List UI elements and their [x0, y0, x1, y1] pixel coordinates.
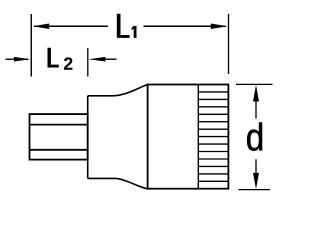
neck cylinder with bell transition — [88, 85, 148, 189]
d dimension down arrow — [253, 159, 259, 189]
dimension L1 right arrow — [144, 24, 228, 29]
d dimension top tick — [236, 83, 273, 85]
dimension L1 left arrow — [33, 24, 108, 29]
d dimension bottom tick — [239, 189, 271, 191]
knurl section left boundary — [197, 85, 199, 189]
extension line right (end of socket body) — [228, 14, 230, 74]
d dimension up arrow — [253, 85, 259, 119]
extension line left (start of hex shank) — [30, 14, 32, 77]
hex drive shank — [30, 114, 88, 160]
socket body — [148, 85, 229, 189]
label d — [247, 123, 262, 151]
dimension L2 left arrow (outside, pointing right) — [6, 57, 31, 62]
knurl lines — [198, 92, 228, 181]
dimension L2 right arrow (outside, pointing left) — [88, 57, 116, 62]
label L1 — [117, 14, 137, 38]
L2 right tick — [87, 48, 89, 77]
label L2 — [48, 48, 73, 70]
